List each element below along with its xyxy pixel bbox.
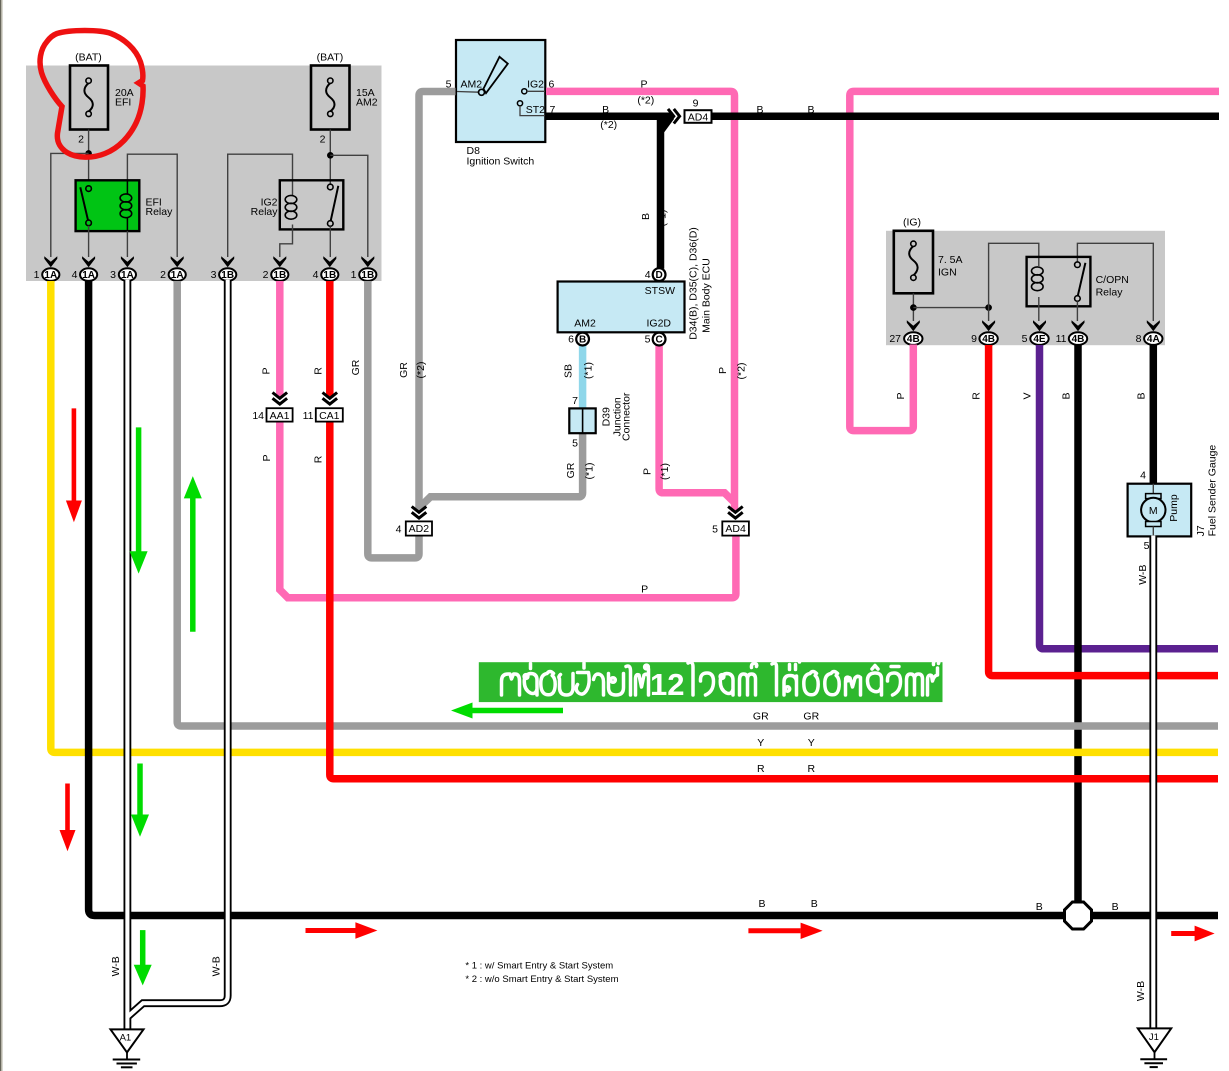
ground A1 bbox=[111, 1029, 144, 1067]
connector AD4 bottom chevron bbox=[728, 507, 743, 519]
svg-text:4B: 4B bbox=[1072, 334, 1085, 345]
wire W-B from fuel pump to ground J1 bbox=[1149, 536, 1157, 1029]
connector AD4 top chevron bbox=[668, 109, 680, 124]
svg-text:14: 14 bbox=[252, 410, 264, 422]
svg-text:AA1: AA1 bbox=[270, 410, 290, 422]
wire P pink from pin 2 1B through AA1 to connector AD4 bbox=[276, 281, 284, 398]
pin arrow 5 4E bbox=[1033, 320, 1046, 331]
relay block panel (junction block 1A/1B) bbox=[26, 66, 382, 282]
wire IG2 switch to pin 4 1B bbox=[329, 226, 331, 257]
svg-text:B: B bbox=[1061, 392, 1073, 399]
node junction dot at fuse 20A output bbox=[85, 150, 92, 157]
pin 1 1A bbox=[34, 268, 60, 281]
annotation green arrow left under green box bbox=[470, 708, 563, 714]
svg-text:4B: 4B bbox=[907, 334, 920, 345]
svg-text:A1: A1 bbox=[120, 1033, 132, 1044]
pin 9 4B bbox=[971, 332, 998, 345]
svg-text:(*2): (*2) bbox=[600, 119, 617, 131]
svg-text:W-B: W-B bbox=[1137, 565, 1149, 585]
pin 2 1A bbox=[160, 268, 186, 281]
svg-text:P: P bbox=[642, 468, 654, 475]
wire R red from pin 9 4B to right edge bbox=[989, 345, 1218, 676]
pin arrow 4 1A bbox=[82, 256, 95, 267]
annotation red arrow right bottom middle bbox=[748, 928, 800, 933]
annotation red arrow right bottom right bbox=[1171, 931, 1195, 936]
annotation green box Thai caption bbox=[479, 662, 943, 702]
svg-text:B: B bbox=[640, 213, 652, 220]
wire C/OPN relay switch to pin 8 4A bbox=[1077, 243, 1153, 321]
svg-text:4B: 4B bbox=[982, 334, 995, 345]
pin arrow 3 1B bbox=[221, 256, 234, 267]
svg-text:1: 1 bbox=[34, 269, 40, 281]
wire B black from ST2 to right edge bbox=[546, 112, 673, 120]
pin 2 1B bbox=[263, 268, 289, 281]
ECU pin 6 B bbox=[568, 333, 589, 346]
pin 3 1A bbox=[110, 268, 136, 281]
pin arrow 27 4B bbox=[907, 320, 920, 331]
svg-text:IG2: IG2 bbox=[527, 78, 544, 90]
svg-text:2: 2 bbox=[160, 269, 166, 281]
svg-text:1: 1 bbox=[351, 269, 357, 281]
wire B black from pin 11 4B down to junction bbox=[1074, 345, 1082, 916]
svg-text:C/OPN: C/OPN bbox=[1096, 274, 1129, 286]
svg-text:B: B bbox=[758, 898, 765, 910]
pin arrow 2 1B bbox=[273, 256, 286, 267]
svg-text:7. 5A: 7. 5A bbox=[938, 254, 963, 266]
svg-text:9: 9 bbox=[693, 97, 699, 109]
wire branch to pin 1 1B bbox=[330, 155, 368, 257]
svg-text:Y: Y bbox=[757, 737, 764, 749]
node junction dot above pin 9 4B bbox=[985, 304, 992, 311]
connector 11 CA1 bbox=[303, 408, 343, 422]
svg-text:P: P bbox=[895, 392, 907, 399]
wire B black from pin 8 4A to fuel pump bbox=[1150, 345, 1158, 485]
svg-text:GR: GR bbox=[753, 710, 769, 722]
junction connector D39 bbox=[569, 408, 595, 433]
svg-text:4A: 4A bbox=[1147, 334, 1160, 345]
svg-text:B: B bbox=[1036, 901, 1043, 913]
svg-text:(*2): (*2) bbox=[415, 362, 427, 379]
annotation green arrow down on W-B wire bottom bbox=[140, 930, 146, 967]
svg-text:AD4: AD4 bbox=[688, 111, 709, 123]
svg-text:2: 2 bbox=[263, 269, 269, 281]
wire W-B from pin 3 1B joining ground A1 wire bbox=[128, 281, 228, 1017]
svg-text:P: P bbox=[640, 78, 647, 90]
svg-text:4: 4 bbox=[396, 523, 402, 535]
svg-text:P: P bbox=[641, 583, 648, 595]
node octagon junction on B wire bbox=[1065, 902, 1092, 929]
annotation green arrow down on W-B wire lower bbox=[137, 764, 143, 818]
wire C/OPN coil to pin 5 4E bbox=[1038, 297, 1040, 321]
svg-text:W-B: W-B bbox=[110, 956, 122, 976]
svg-text:(BAT): (BAT) bbox=[75, 52, 102, 64]
svg-text:* 2 : w/o Smart Entry & Start: * 2 : w/o Smart Entry & Start System bbox=[465, 974, 618, 985]
fuel pump J7 bbox=[1128, 484, 1192, 537]
svg-text:ST2: ST2 bbox=[526, 104, 545, 116]
svg-text:AD2: AD2 bbox=[409, 523, 430, 535]
svg-text:5: 5 bbox=[712, 523, 718, 535]
relay block panel (4A/4B/4E) bbox=[886, 231, 1165, 345]
wire node to node toward pin 9 4B bbox=[913, 307, 988, 309]
svg-text:AM2: AM2 bbox=[356, 97, 378, 109]
annotation red circle around fuse 20A EFI bbox=[40, 31, 143, 158]
svg-text:IG2D: IG2D bbox=[646, 317, 671, 329]
wire V purple from pin 5 4E to right edge bbox=[1040, 345, 1219, 649]
svg-text:4: 4 bbox=[313, 269, 319, 281]
svg-text:11: 11 bbox=[1056, 333, 1067, 345]
svg-text:P: P bbox=[261, 367, 273, 374]
svg-text:Fuel Sender Gauge: Fuel Sender Gauge bbox=[1206, 445, 1218, 537]
wire EFI relay switch to pin 4 1A bbox=[88, 226, 90, 257]
relay C/OPN bbox=[1027, 257, 1091, 306]
wire EFI relay coil to pin 3 1A bbox=[126, 231, 128, 257]
wire Y yellow from pin 1 1A to right edge bbox=[51, 281, 1218, 752]
svg-text:4: 4 bbox=[72, 269, 78, 281]
svg-text:5: 5 bbox=[572, 438, 578, 450]
svg-text:7: 7 bbox=[572, 395, 578, 407]
annotation red arrow down left upper bbox=[72, 408, 77, 503]
svg-text:EFI: EFI bbox=[115, 97, 131, 109]
pin arrow 3 1A bbox=[121, 256, 134, 267]
svg-text:1B: 1B bbox=[221, 270, 234, 281]
svg-text:AM2: AM2 bbox=[574, 317, 596, 329]
connector AA1 chevron bbox=[273, 393, 288, 405]
svg-text:GR: GR bbox=[350, 359, 362, 375]
relay IG2 bbox=[280, 180, 344, 229]
svg-text:V: V bbox=[1022, 392, 1034, 399]
annotation green arrow down on W-B wire upper bbox=[136, 427, 142, 553]
svg-text:B: B bbox=[602, 104, 609, 116]
wire fuse IGN down to node bbox=[912, 293, 914, 321]
wire IG2 coil to pin 3 1B bbox=[228, 154, 293, 257]
ground J1 bbox=[1138, 1028, 1171, 1067]
svg-text:5: 5 bbox=[1144, 540, 1150, 552]
svg-text:(*1): (*1) bbox=[657, 210, 669, 227]
wire B black from pin 4 1A along bottom to right edge bbox=[89, 281, 1218, 916]
svg-text:W-B: W-B bbox=[1135, 981, 1147, 1001]
svg-text:8: 8 bbox=[1136, 333, 1142, 345]
svg-text:5: 5 bbox=[645, 334, 651, 346]
pin 4 1B bbox=[313, 268, 339, 281]
wire P pink from ECU pin C to connector AD4 bbox=[659, 345, 735, 503]
connector 9 AD4 bbox=[685, 97, 712, 123]
connector AD2 chevron bbox=[412, 507, 427, 519]
svg-text:2: 2 bbox=[320, 134, 326, 146]
svg-text:(*1): (*1) bbox=[584, 463, 596, 480]
node junction dot at fuse 15A output bbox=[327, 152, 334, 159]
svg-text:Connector: Connector bbox=[620, 392, 632, 441]
svg-text:SB: SB bbox=[563, 364, 575, 378]
svg-text:B: B bbox=[1136, 392, 1148, 399]
svg-text:B: B bbox=[1112, 901, 1119, 913]
ECU pin 4 D bbox=[645, 268, 666, 281]
svg-text:C: C bbox=[655, 335, 662, 346]
svg-text:P: P bbox=[261, 454, 273, 461]
svg-text:1A: 1A bbox=[82, 270, 95, 281]
svg-text:CA1: CA1 bbox=[319, 410, 340, 422]
fuse 15A AM2 bbox=[311, 66, 350, 130]
svg-text:1A: 1A bbox=[171, 270, 184, 281]
svg-text:GR: GR bbox=[398, 362, 410, 378]
svg-text:AD4: AD4 bbox=[725, 523, 746, 535]
Main Body ECU box bbox=[558, 282, 685, 333]
fuse 7.5A IGN bbox=[894, 231, 933, 293]
wire P pink feed from right edge down to pin 27 4B bbox=[850, 91, 1219, 430]
svg-text:6: 6 bbox=[568, 334, 574, 346]
svg-text:R: R bbox=[313, 455, 325, 463]
annotation red arrow down left lower bbox=[65, 784, 70, 834]
pin 27 4B bbox=[889, 332, 922, 345]
wire node up to C/OPN relay coil bbox=[989, 243, 1039, 321]
svg-text:IGN: IGN bbox=[938, 267, 957, 279]
svg-text:4: 4 bbox=[1140, 470, 1146, 482]
pin arrow 11 4B bbox=[1072, 320, 1085, 331]
pin arrow 9 4B bbox=[982, 320, 995, 331]
svg-text:D34(B), D35(C), D36(D): D34(B), D35(C), D36(D) bbox=[687, 227, 699, 340]
caption Thai glyph strokes bbox=[502, 658, 939, 695]
svg-text:J1: J1 bbox=[1149, 1032, 1159, 1043]
pin arrow 2 1A bbox=[171, 256, 184, 267]
svg-text:W-B: W-B bbox=[211, 956, 223, 976]
wire branch to pin 1 1A bbox=[51, 153, 89, 257]
pin 4 1A bbox=[72, 268, 98, 281]
wire W-B from pin 3 1A to ground A1 bbox=[124, 281, 132, 1030]
svg-text:Ignition Switch: Ignition Switch bbox=[467, 155, 535, 167]
pin 1 1B bbox=[351, 268, 377, 281]
svg-text:Relay: Relay bbox=[251, 206, 279, 218]
pin 11 4B bbox=[1056, 332, 1088, 345]
svg-text:1B: 1B bbox=[273, 270, 286, 281]
wire GR gray from ignition switch AM2 down to connector AD2 bbox=[419, 92, 456, 512]
svg-text:J7: J7 bbox=[1195, 525, 1207, 536]
svg-text:B: B bbox=[811, 898, 818, 910]
svg-text:9: 9 bbox=[971, 333, 977, 345]
svg-text:12: 12 bbox=[650, 667, 684, 702]
wire SB light-blue from ECU pin B to junction connector D39 bbox=[579, 345, 587, 409]
svg-text:3: 3 bbox=[110, 269, 116, 281]
relay EFI (green) bbox=[76, 180, 140, 231]
svg-text:GR: GR bbox=[803, 710, 819, 722]
svg-text:3: 3 bbox=[211, 269, 217, 281]
wire GR gray from pin 2 1A to right edge bbox=[177, 281, 1218, 726]
pin 3 1B bbox=[211, 268, 237, 281]
pin 5 4E bbox=[1022, 332, 1049, 345]
connector 14 AA1 bbox=[252, 408, 292, 422]
connector 5 AD4 bbox=[712, 521, 749, 535]
node junction dot below fuse IGN bbox=[910, 304, 917, 311]
white core of W-B wires bbox=[127, 280, 1153, 1030]
pin arrow 1 1B bbox=[361, 256, 374, 267]
svg-text:P: P bbox=[717, 367, 729, 374]
svg-text:27: 27 bbox=[889, 333, 901, 345]
svg-text:(*2): (*2) bbox=[735, 363, 747, 380]
svg-text:R: R bbox=[757, 763, 765, 775]
wire R red from pin 4 1B through CA1 to right edge bbox=[326, 281, 334, 398]
svg-text:(*1): (*1) bbox=[659, 463, 671, 480]
svg-text:(IG): (IG) bbox=[903, 217, 921, 229]
wire fuse 15A to IG2 relay bbox=[329, 130, 331, 187]
svg-text:* 1 : w/ Smart Entry & Start S: * 1 : w/ Smart Entry & Start System bbox=[465, 960, 613, 971]
pin arrow 1 1A bbox=[44, 256, 57, 267]
pin arrow 4 1B bbox=[323, 256, 336, 267]
wire fuse 20A to EFI relay bbox=[88, 130, 90, 186]
connector 4 AD2 bbox=[396, 521, 432, 535]
ignition switch D8 bbox=[456, 40, 545, 142]
svg-text:1A: 1A bbox=[121, 270, 134, 281]
svg-text:(*2): (*2) bbox=[637, 94, 654, 106]
svg-text:Pump: Pump bbox=[1168, 494, 1180, 522]
svg-text:M: M bbox=[1149, 505, 1158, 517]
svg-text:B: B bbox=[579, 335, 586, 346]
ECU pin 5 C bbox=[645, 333, 666, 346]
svg-text:GR: GR bbox=[565, 462, 577, 478]
svg-text:Y: Y bbox=[808, 737, 815, 749]
svg-text:AM2: AM2 bbox=[461, 78, 483, 90]
svg-text:(BAT): (BAT) bbox=[317, 52, 344, 64]
wire P pink from IG2 to connector AD4 bbox=[546, 91, 735, 511]
svg-text:B: B bbox=[756, 104, 763, 116]
svg-text:Main Body ECU: Main Body ECU bbox=[700, 258, 712, 333]
wire C/OPN switch to pin 11 4B bbox=[1076, 301, 1078, 321]
svg-text:R: R bbox=[313, 367, 325, 375]
annotation red arrow right bottom left bbox=[306, 928, 358, 933]
svg-text:1B: 1B bbox=[323, 270, 336, 281]
wire GR gray from connector AD2 to pin 1 1B bbox=[368, 281, 419, 558]
svg-text:Relay: Relay bbox=[1096, 287, 1124, 299]
svg-text:R: R bbox=[808, 763, 816, 775]
svg-text:(*1): (*1) bbox=[583, 362, 595, 379]
svg-text:D: D bbox=[655, 270, 662, 281]
fuse 20A EFI bbox=[70, 66, 108, 130]
svg-text:B: B bbox=[807, 104, 814, 116]
connector CA1 chevron bbox=[323, 393, 338, 405]
wire IG2 coil to pin 2 1B bbox=[280, 225, 293, 258]
wire GR gray from D39 pin 5 to connector AD2 bbox=[420, 433, 583, 507]
wire B black branch down to ECU pin D bbox=[661, 117, 672, 269]
svg-text:5: 5 bbox=[1022, 333, 1028, 345]
pin arrow 8 4A bbox=[1147, 320, 1160, 331]
svg-text:2: 2 bbox=[78, 134, 84, 146]
annotation green arrow up on GR wire bbox=[190, 496, 196, 631]
pin 8 4A bbox=[1136, 332, 1163, 345]
svg-text:4E: 4E bbox=[1033, 334, 1046, 345]
svg-text:R: R bbox=[971, 392, 983, 400]
svg-text:11: 11 bbox=[303, 410, 314, 422]
svg-text:Relay: Relay bbox=[146, 206, 174, 218]
svg-text:4: 4 bbox=[645, 269, 651, 281]
svg-text:STSW: STSW bbox=[645, 285, 675, 297]
svg-text:1B: 1B bbox=[361, 270, 374, 281]
svg-text:1A: 1A bbox=[44, 270, 57, 281]
wire branch coil to pin 2 1A bbox=[127, 154, 177, 257]
page left border line bbox=[0, 0, 1, 1071]
